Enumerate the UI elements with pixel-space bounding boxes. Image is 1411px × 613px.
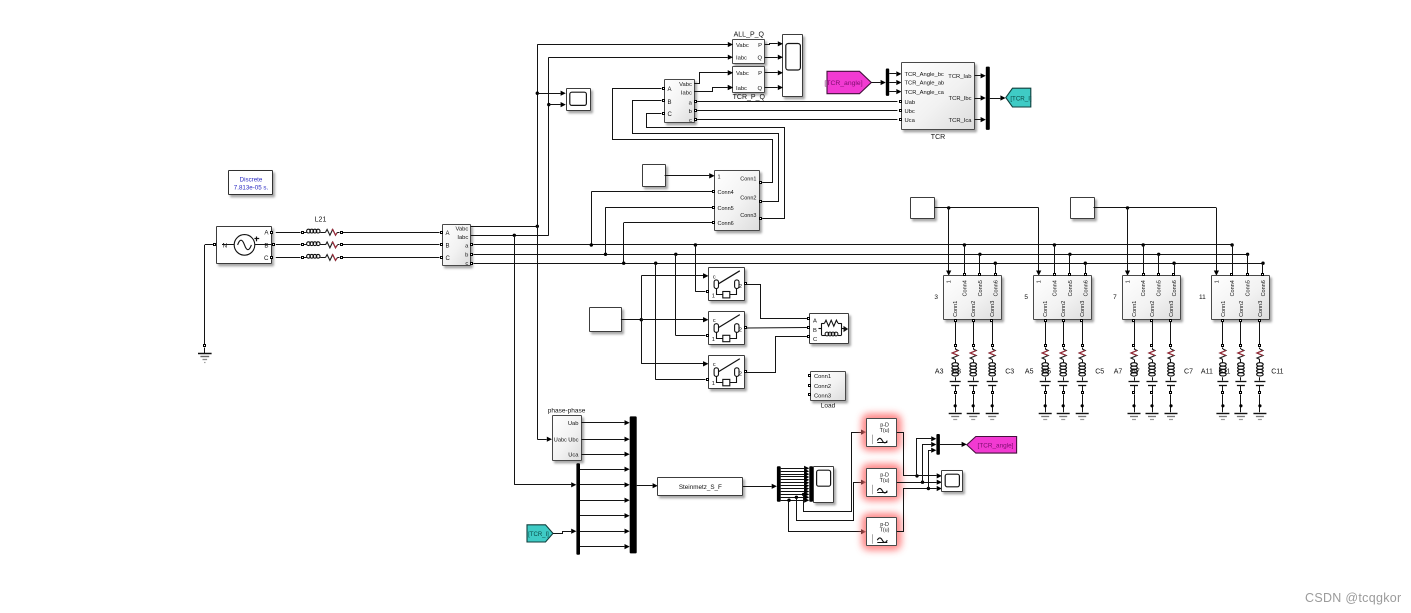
svg-text:5: 5: [1024, 294, 1028, 301]
svg-text:A5: A5: [1025, 369, 1034, 376]
scope Scope4 (3 inputs): [942, 471, 963, 492]
svg-text:C: C: [668, 112, 673, 118]
svg-text:Iabc: Iabc: [736, 86, 747, 92]
svg-text:TCR_Ibc: TCR_Ibc: [949, 96, 972, 102]
svg-text:c: c: [465, 261, 468, 267]
svg-text:C: C: [264, 255, 269, 262]
mux M4 (black bar): [936, 434, 940, 455]
wire breaker Q2 output to load B: [746, 327, 807, 330]
svg-text:Conn5: Conn5: [718, 206, 734, 212]
svg-text:Vabc: Vabc: [736, 71, 749, 77]
label A7: [1114, 369, 1123, 376]
label C5: [1095, 369, 1104, 376]
wire bus b drop to breaker Q2: [674, 253, 705, 336]
svg-text:TCR_Angle_bc: TCR_Angle_bc: [905, 72, 944, 78]
svg-text:A7: A7: [1114, 369, 1123, 376]
svg-text:Conn6: Conn6: [1172, 280, 1178, 296]
wire From TCR_I to demux D2: [553, 529, 576, 534]
svg-text:phase-phase: phase-phase: [548, 408, 586, 415]
From tag [TCR_angle]: [824, 71, 871, 93]
label C7: [1184, 369, 1193, 376]
wire tap2 to lookup LUT2: [795, 480, 867, 521]
series RL branch L21 phase C (wire from source C to measurement): [276, 254, 440, 260]
svg-text:Q: Q: [757, 86, 762, 92]
svg-text:7.813e-05 s.: 7.813e-05 s.: [234, 184, 269, 191]
svg-text:Conn2: Conn2: [971, 301, 977, 317]
svg-text:A: A: [446, 231, 450, 237]
series RLC capacitor branch A5 with ground: [1039, 321, 1052, 419]
subsystem phase-phase: [547, 408, 586, 461]
watermark CSDN @tcqgkor: [1305, 591, 1401, 605]
svg-text:Conn5: Conn5: [978, 280, 984, 296]
wire D2 output 3 to mux M2: [580, 498, 630, 503]
svg-text:Conn2: Conn2: [1239, 301, 1245, 317]
constant block K1 (empty square): [643, 165, 666, 187]
svg-text:Conn3: Conn3: [1169, 301, 1175, 317]
wire Vabc from meas1 to junction x=537: [471, 225, 539, 228]
svg-text:Conn4: Conn4: [1052, 280, 1058, 296]
svg-text:Ubc: Ubc: [568, 438, 578, 444]
wire Iabc tap down to demux D2 input: [514, 235, 576, 487]
svg-text:C5: C5: [1095, 369, 1104, 376]
wire bus phase c (horizontal): [473, 263, 1263, 265]
Goto tag [TCR_I]: [1006, 88, 1032, 107]
lookup table LUT1 (p-D T(u), highlighted): [862, 414, 901, 450]
wire bus drops to filter bank 5 Conn4/5/6: [1053, 243, 1087, 273]
wire U1 Conn2 to meas2 B: [633, 101, 779, 202]
svg-text:Iabc: Iabc: [457, 235, 468, 241]
scope Scope1 (2 inputs): [567, 89, 591, 111]
wire phase-phase Uca to mux M2: [581, 452, 629, 457]
circuit breaker Q1: [703, 268, 746, 301]
wire bus drops to filter bank 7 Conn4/5/6: [1142, 243, 1176, 273]
svg-text:A: A: [668, 87, 672, 93]
constant block K4 (breaker control): [590, 308, 622, 332]
Goto tag [TCR_angle]: [967, 437, 1017, 454]
svg-text:B: B: [668, 100, 672, 106]
svg-text:Load: Load: [821, 403, 836, 410]
svg-text:Conn6: Conn6: [1083, 280, 1089, 296]
wire U1 Conn5 from bus b: [604, 207, 712, 256]
wire D2 output 6 to mux M2: [580, 544, 630, 549]
svg-text:Conn1: Conn1: [1132, 301, 1138, 317]
wire bus phase b (horizontal): [473, 254, 1247, 256]
svg-text:1: 1: [712, 293, 715, 299]
demux D2 (black bar): [576, 463, 580, 554]
svg-text:Conn3: Conn3: [1080, 301, 1086, 317]
svg-text:1: 1: [712, 337, 715, 343]
wire TCR_Iab to mux M1: [975, 73, 986, 78]
series RLC capacitor branch B7 with ground: [1146, 321, 1159, 419]
svg-text:1: 1: [1037, 280, 1043, 283]
scope Scope3: [814, 467, 834, 503]
power measurement block ALL_P_Q: [728, 32, 765, 64]
series RLC capacitor branch C7 with ground: [1165, 321, 1178, 419]
svg-text:c: c: [713, 362, 716, 368]
svg-text:L21: L21: [315, 217, 327, 224]
mux M2 (black bar): [630, 416, 637, 553]
svg-text:Uca: Uca: [568, 452, 579, 458]
svg-text:B: B: [264, 242, 268, 249]
svg-text:[TCR_angle]: [TCR_angle]: [824, 80, 862, 87]
From tag [TCR_I]: [527, 525, 553, 542]
wire bus c drop to breaker Q3: [654, 262, 706, 380]
series RLC capacitor branch A7 with ground: [1128, 321, 1141, 419]
wire breaker Q3 output to load C: [746, 337, 807, 373]
label A5: [1025, 369, 1034, 376]
svg-text:Steinmetz_S_F: Steinmetz_S_F: [679, 484, 722, 491]
label B11 (partially hidden): [1218, 369, 1230, 376]
svg-text:Ubc: Ubc: [905, 109, 915, 115]
svg-text:Conn1: Conn1: [740, 176, 756, 182]
label A3: [935, 369, 944, 376]
wire LUT1 output: [897, 433, 942, 479]
svg-text:[TCR_I]: [TCR_I]: [1010, 95, 1032, 102]
powergui block (Discrete 7.813e-05 s.): [229, 171, 273, 195]
svg-text:C7: C7: [1184, 369, 1193, 376]
wire D2 output 2 to mux M2: [580, 482, 630, 487]
wire tap1 to lookup LUT1: [802, 430, 866, 512]
svg-text:Conn1: Conn1: [814, 374, 831, 380]
svg-text:Discrete: Discrete: [240, 177, 263, 184]
wire meas2 b to TCR Ubc: [697, 110, 897, 112]
wire D2 output 4 to mux M2: [580, 513, 630, 518]
subsystem filter bank 3: [934, 274, 1001, 322]
subsystem TCR: [900, 63, 975, 142]
svg-text:Uab: Uab: [568, 421, 579, 427]
svg-text:Conn6: Conn6: [1261, 280, 1267, 296]
label C11: [1271, 369, 1283, 376]
svg-text:Conn5: Conn5: [1068, 280, 1074, 296]
svg-text:A: A: [813, 319, 817, 325]
wire U1 Conn6 from bus c: [622, 223, 712, 265]
subsystem filter bank 11: [1199, 274, 1270, 322]
wire TCR_Ica to mux M1: [975, 117, 986, 122]
wire Iabc from meas1 with junctions: [471, 234, 549, 237]
wires D3 to mux M3 (12 signals): [781, 466, 810, 503]
svg-text:A3: A3: [935, 369, 944, 376]
wire bus drops to filter bank 3 Conn4/5/6: [963, 243, 997, 273]
three-phase V-I measurement block meas2 (Vabc Iabc): [663, 80, 697, 125]
lookup table LUT2 (p-D T(u), highlighted): [862, 464, 901, 500]
svg-text:c: c: [689, 118, 692, 124]
wire meas2 Vabc to TCR_P_Q Vabc: [694, 70, 733, 83]
wire bus a drop to breaker Q1: [694, 243, 706, 291]
wire meas2 c to TCR Uca: [697, 119, 897, 121]
series RLC capacitor branch B3 with ground: [967, 321, 980, 419]
svg-text:P: P: [758, 71, 762, 77]
svg-text:Conn2: Conn2: [1061, 301, 1067, 317]
label B3 (partially hidden): [952, 369, 961, 376]
svg-text:Conn2: Conn2: [740, 195, 756, 201]
wire U1 Conn3 to meas2 C: [647, 114, 785, 219]
wire D1 to TCR_Angle_ca: [889, 89, 901, 94]
wire TCR_Ibc to mux M1: [975, 95, 986, 100]
svg-text:[TCR_I]: [TCR_I]: [528, 532, 549, 538]
svg-text:1: 1: [1126, 280, 1132, 283]
svg-text:Conn2: Conn2: [1150, 301, 1156, 317]
label C3: [1005, 369, 1014, 376]
wire tap to scope1 input 2: [549, 102, 566, 107]
svg-text:P: P: [758, 43, 762, 49]
wire From TCR_angle to demux D1: [871, 80, 886, 85]
svg-text:Conn5: Conn5: [1246, 280, 1252, 296]
circuit breaker Q2: [703, 312, 746, 345]
svg-text:Iabc: Iabc: [681, 90, 692, 96]
series RLC capacitor branch C3 with ground: [986, 321, 999, 419]
wire LUT3 output: [897, 448, 942, 532]
svg-text:TCR_Angle_ab: TCR_Angle_ab: [905, 81, 945, 87]
svg-text:TCR: TCR: [931, 134, 945, 141]
svg-text:C: C: [813, 337, 817, 343]
circuit breaker Q3: [703, 356, 746, 389]
svg-text:T(u): T(u): [880, 428, 890, 434]
wire mux M1 to Goto TCR_I: [990, 95, 1006, 100]
subsystem filter bank 7: [1113, 274, 1180, 322]
ground G1 (source neutral): [198, 245, 213, 363]
svg-text:7: 7: [1113, 294, 1117, 301]
svg-text:Conn5: Conn5: [1157, 280, 1163, 296]
wire K3 to filter banks 7 and 11 input 1: [1094, 206, 1220, 276]
svg-text:b: b: [689, 109, 692, 115]
wire K2 to filter banks 3 and 5 input 1: [935, 206, 1042, 276]
svg-text:c: c: [713, 318, 716, 324]
wire meas2 a to TCR Uab: [697, 101, 897, 103]
wire TCR_P_Q Q to Scope2 in4: [765, 85, 783, 90]
svg-text:Q: Q: [757, 56, 762, 62]
wire phase-phase Uab to mux M2: [581, 420, 629, 425]
series RL branch L21 phase A (wire from source A to measurement): [276, 229, 440, 235]
svg-text:1: 1: [1214, 280, 1220, 283]
wire LUT2 output: [897, 442, 942, 485]
constant block K3 (empty square): [1071, 198, 1095, 219]
wire Steinmetz_S_F to demux D3: [743, 484, 777, 489]
svg-text:Vabc: Vabc: [679, 82, 692, 88]
series RLC capacitor branch A11 with ground: [1216, 321, 1229, 419]
svg-text:Uab: Uab: [905, 100, 916, 106]
svg-text:Conn6: Conn6: [993, 280, 999, 296]
wire K1 to U1 input 1: [665, 173, 715, 178]
label B7 (partially hidden): [1131, 369, 1140, 376]
svg-text:Conn1: Conn1: [1221, 301, 1227, 317]
mux M1 (black bar): [986, 67, 990, 130]
power measurement block TCR_P_Q: [728, 67, 766, 102]
mux M3 (black bar): [809, 466, 813, 502]
svg-text:Conn1: Conn1: [953, 301, 959, 317]
wire D2 output 5 to mux M2: [580, 529, 630, 534]
svg-text:T(u): T(u): [880, 478, 890, 484]
three-phase parallel RLC load block: [808, 314, 849, 344]
three-phase V-I measurement block meas1 (Vabc Iabc): [441, 225, 473, 268]
svg-text:[TCR_angle]: [TCR_angle]: [978, 443, 1014, 450]
wire breaker Q1 output to load A: [746, 285, 807, 319]
subsystem Load: [809, 372, 846, 410]
wire K4 to breaker control inputs c: [621, 273, 708, 366]
series RLC capacitor branch B5 with ground: [1057, 321, 1070, 419]
svg-text:N: N: [223, 242, 228, 249]
lookup table LUT3 (p-D T(u), highlighted): [862, 514, 901, 550]
svg-text:Conn4: Conn4: [962, 280, 968, 296]
svg-text:1: 1: [718, 174, 721, 180]
svg-text:b: b: [465, 252, 468, 258]
svg-text:Conn4: Conn4: [1141, 280, 1147, 296]
svg-text:TCR_Iab: TCR_Iab: [948, 74, 971, 80]
svg-text:C: C: [446, 256, 451, 262]
svg-text:1: 1: [712, 381, 715, 387]
svg-text:Conn2: Conn2: [814, 384, 831, 390]
wire Vabc riser to phase-phase input: [537, 439, 546, 441]
wire Iabc riser x=549 up to ALL_P_Q: [547, 57, 728, 235]
wire tap3 to lookup LUT3: [787, 499, 866, 535]
svg-text:C11: C11: [1271, 369, 1283, 376]
svg-text:Conn1: Conn1: [1043, 301, 1049, 317]
svg-text:Vabc: Vabc: [736, 43, 749, 49]
series RLC capacitor branch C11 with ground: [1253, 321, 1266, 419]
wire bus drops to filter bank 11 Conn4/5/6: [1230, 243, 1264, 273]
svg-text:CSDN @tcqgkor: CSDN @tcqgkor: [1305, 591, 1401, 605]
svg-text:Uabc: Uabc: [554, 438, 567, 444]
svg-text:A11: A11: [1201, 369, 1213, 376]
svg-text:T(u): T(u): [880, 528, 890, 534]
svg-text:Conn3: Conn3: [1258, 301, 1264, 317]
series RL branch L21 phase B (wire from source B to measurement): [276, 242, 440, 248]
svg-text:c: c: [713, 274, 716, 280]
demux D1 (3 outputs, black bar): [886, 69, 889, 96]
label A11: [1201, 369, 1213, 376]
svg-text:ALL_P_Q: ALL_P_Q: [734, 32, 765, 39]
svg-text:1: 1: [947, 280, 953, 283]
svg-text:TCR_Angle_ca: TCR_Angle_ca: [905, 90, 945, 96]
wire mux M4 to Goto TCR_angle: [940, 442, 967, 447]
series RLC capacitor branch A3 with ground: [949, 321, 962, 419]
three-phase programmable voltage source: [214, 227, 275, 264]
wire U1 Conn1 to meas2 A: [613, 89, 773, 183]
wire U1 Conn4 from bus a: [590, 192, 713, 247]
subsystem U1 (transformer with Conn1-Conn6): [709, 171, 761, 231]
label B5 (partially hidden): [1042, 369, 1051, 376]
svg-text:Vabc: Vabc: [456, 226, 469, 232]
svg-text:Conn3: Conn3: [814, 393, 831, 399]
demux D3 (black bar): [777, 466, 781, 502]
svg-text:C3: C3: [1005, 369, 1014, 376]
svg-text:B: B: [446, 244, 450, 250]
wire Vabc riser x=537 up to ALL_P_Q and down to phase-phase: [536, 45, 728, 440]
svg-text:11: 11: [1199, 294, 1206, 301]
svg-text:3: 3: [934, 294, 938, 301]
wire ALL_P_Q P to Scope2 in1: [765, 41, 783, 46]
svg-text:TCR_Ica: TCR_Ica: [949, 118, 973, 124]
wire D1 to TCR_Angle_ab: [889, 80, 901, 85]
series RLC capacitor branch B11 with ground: [1234, 321, 1247, 419]
svg-text:Conn4: Conn4: [1230, 280, 1236, 296]
label L21: [315, 217, 327, 224]
series RLC capacitor branch C5 with ground: [1076, 321, 1089, 419]
scope Scope2 (4 inputs): [783, 35, 803, 97]
svg-text:B: B: [813, 328, 817, 334]
constant block K2 (empty square): [911, 198, 935, 219]
wire TCR_P_Q P to Scope2 in3: [765, 70, 783, 75]
wire D1 to TCR_Angle_bc: [889, 71, 901, 76]
wire mux M2 to Steinmetz_S_F: [637, 483, 658, 488]
svg-text:Conn4: Conn4: [718, 190, 734, 196]
wire phase-phase Ubc to mux M2: [581, 437, 629, 442]
wire tap to scope1 input 1: [537, 91, 566, 96]
svg-text:Iabc: Iabc: [736, 56, 747, 62]
svg-text:Conn6: Conn6: [718, 221, 734, 227]
subsystem filter bank 5: [1024, 274, 1091, 322]
svg-text:TCR_P_Q: TCR_P_Q: [733, 94, 766, 101]
wire ALL_P_Q Q to Scope2 in2: [765, 55, 783, 60]
wire D2 output 1 to mux M2: [580, 467, 630, 472]
wire meas2 Iabc to TCR_P_Q Iabc: [694, 85, 733, 92]
svg-text:Conn3: Conn3: [990, 301, 996, 317]
svg-text:Conn3: Conn3: [740, 213, 756, 219]
wire bus phase a (horizontal): [473, 244, 1232, 246]
svg-text:Uca: Uca: [905, 118, 916, 124]
block Steinmetz_S_F: [658, 478, 743, 496]
